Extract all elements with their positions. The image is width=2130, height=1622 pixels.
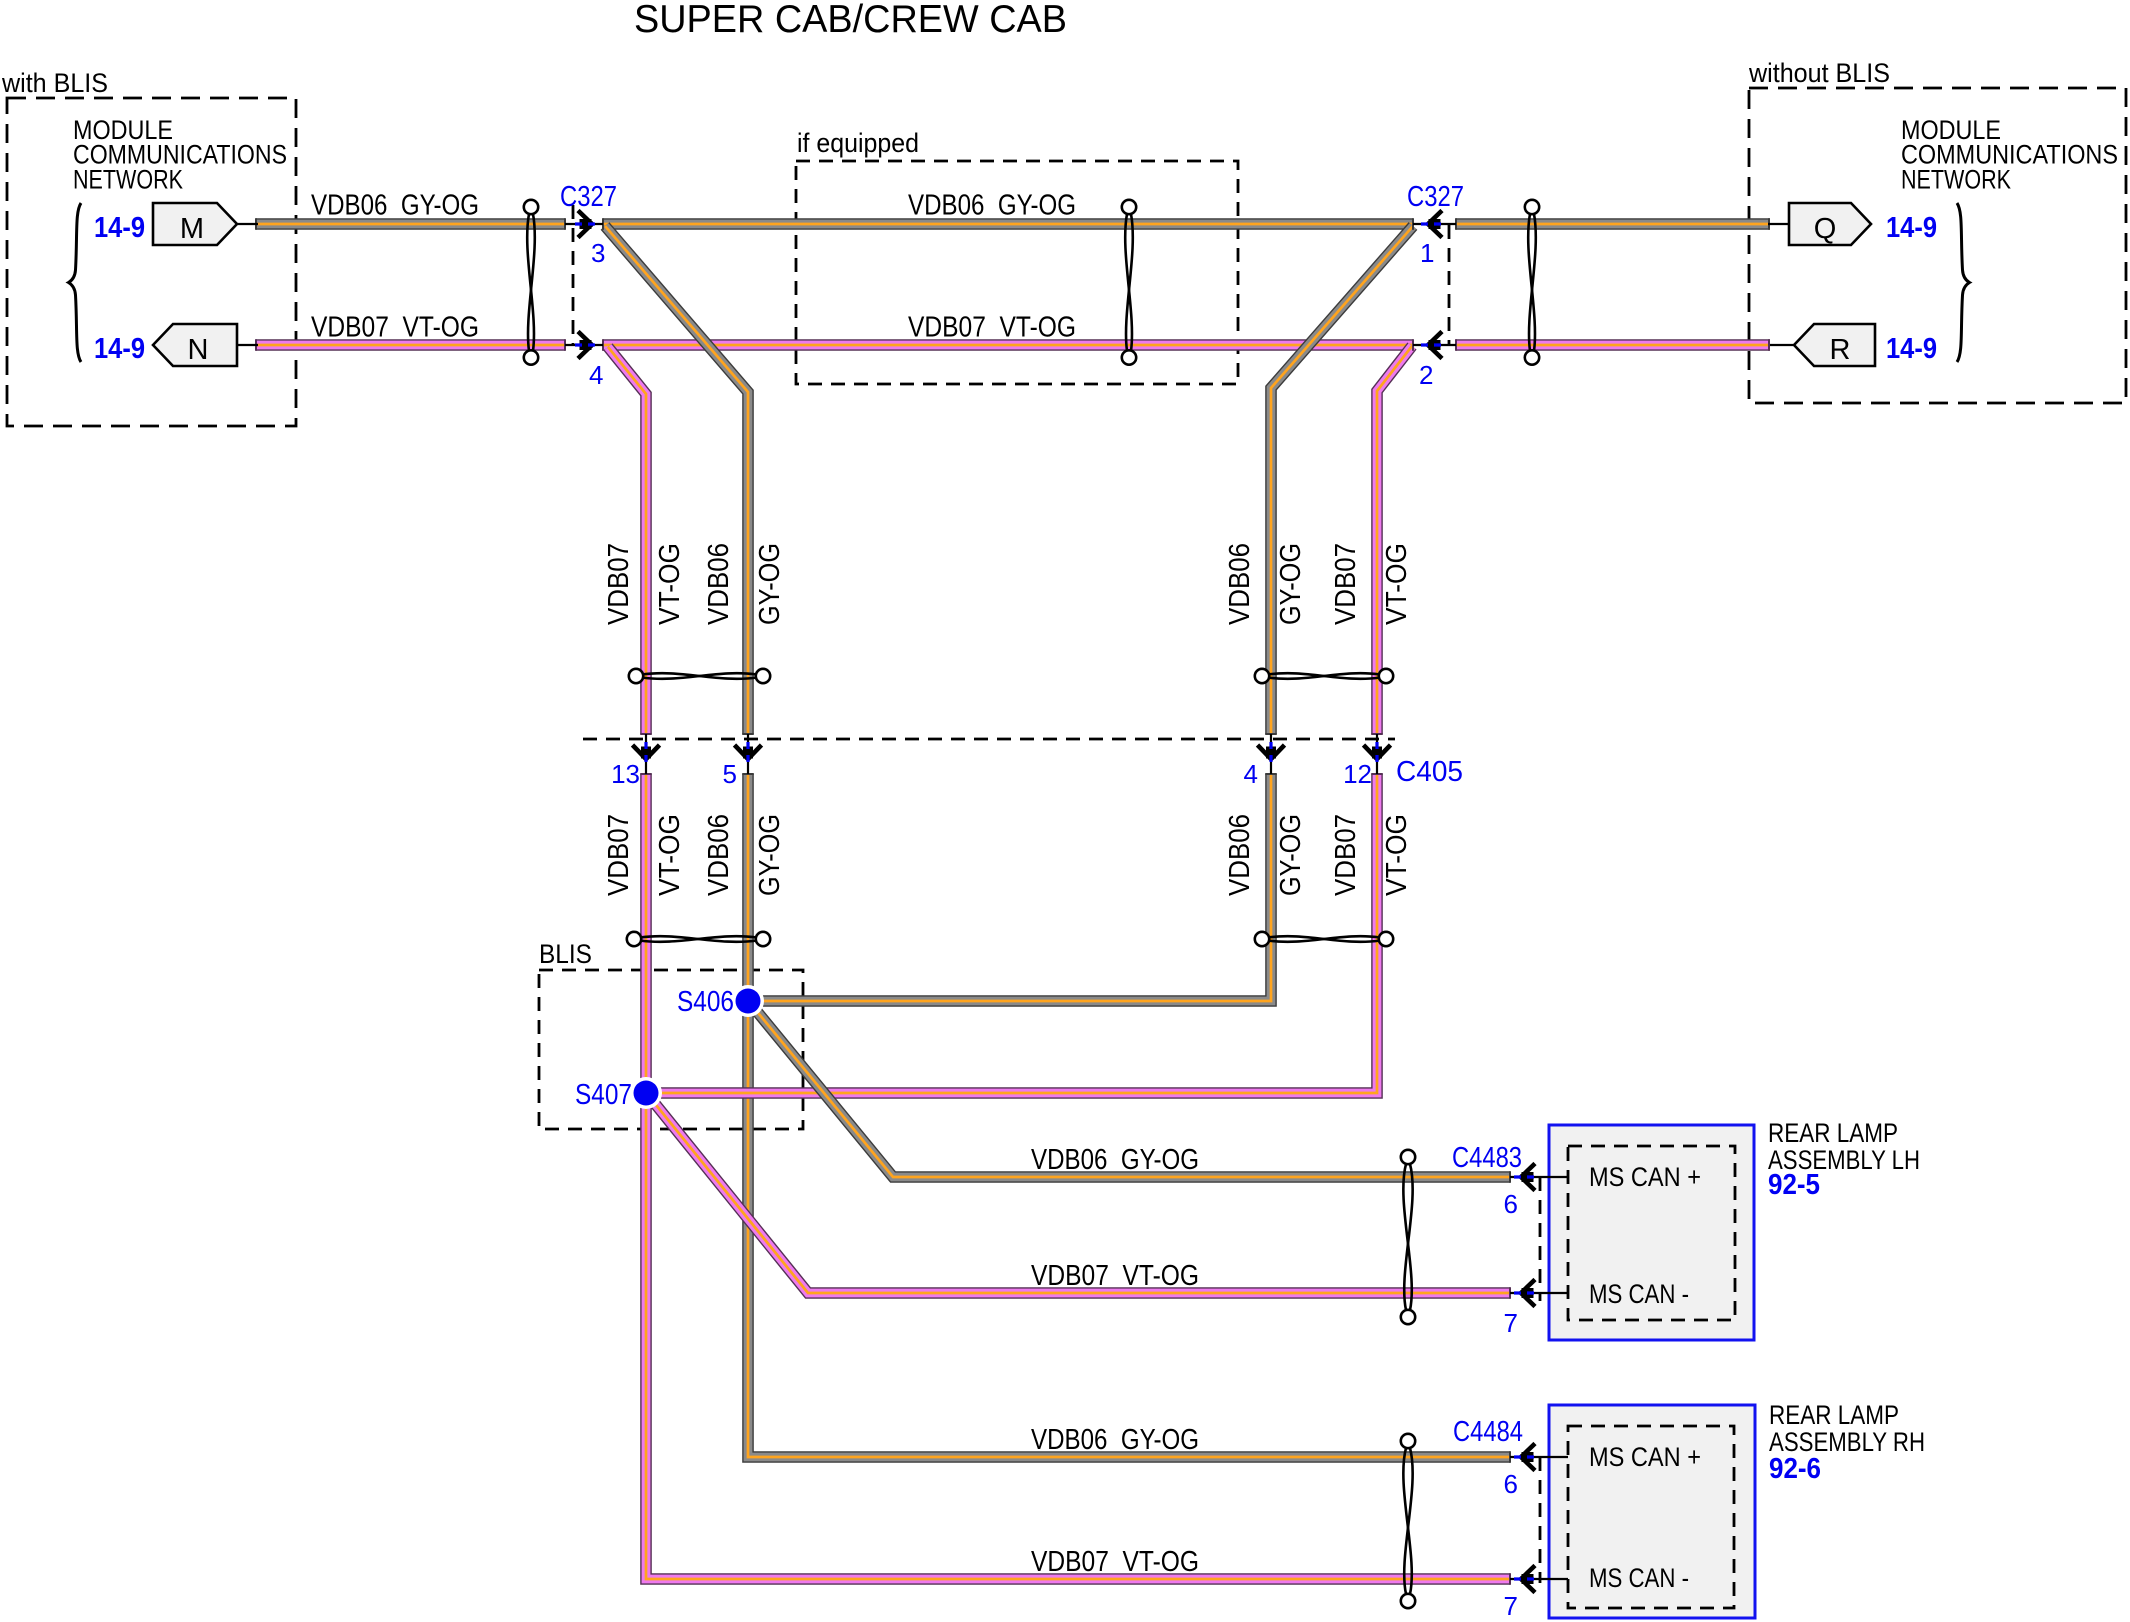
svg-text:GY-OG: GY-OG <box>754 814 786 896</box>
svg-text:C327: C327 <box>560 181 617 213</box>
svg-text:MS CAN +: MS CAN + <box>1589 1442 1701 1472</box>
twisted pair symbol left vertical pair lower <box>627 932 770 946</box>
rear lamp LH inner dashed box <box>1568 1146 1735 1320</box>
svg-text:VDB06 GY-OG: VDB06 GY-OG <box>908 190 1076 222</box>
wire stub C4483 pin 6 <box>1510 1176 1568 1178</box>
wire stub connector M <box>237 223 258 225</box>
wire VDB07 VT-OG splice S407 to C4483 pin 7 <box>648 1095 1510 1293</box>
svg-text:6: 6 <box>1504 1189 1518 1219</box>
twisted pair symbol C4484 wires <box>1401 1434 1415 1608</box>
connector Q symbol <box>1789 203 1871 245</box>
svg-text:VDB07 VT-OG: VDB07 VT-OG <box>908 312 1076 344</box>
svg-text:C4484: C4484 <box>1453 1416 1523 1448</box>
rear lamp RH inner dashed box <box>1568 1426 1734 1608</box>
wire stub C4484 pin 6 <box>1510 1456 1568 1458</box>
svg-text:S406: S406 <box>677 986 734 1018</box>
svg-text:MS CAN -: MS CAN - <box>1589 1563 1689 1593</box>
svg-text:R: R <box>1830 334 1851 366</box>
rotated wire labels upper <box>603 543 1413 625</box>
svg-text:1: 1 <box>1420 238 1434 268</box>
twisted pair symbol M/N wires <box>524 200 538 365</box>
wire VDB06 GY-OG C327 to C327 horizontal <box>603 223 1413 225</box>
connector C327 right dashed line <box>1448 225 1451 345</box>
label module network left <box>73 115 287 195</box>
svg-text:5: 5 <box>723 759 737 789</box>
svg-text:C405: C405 <box>1396 756 1463 788</box>
svg-text:VDB06 GY-OG: VDB06 GY-OG <box>311 190 479 222</box>
svg-text:7: 7 <box>1504 1591 1518 1621</box>
arrow C405 pin 5 <box>735 742 762 766</box>
wire stub C4484 pin 7 <box>1510 1578 1568 1580</box>
rear lamp assembly RH box <box>1549 1405 1755 1618</box>
svg-text:3: 3 <box>591 238 605 268</box>
wire gap line C327 pin 4 <box>565 344 603 346</box>
arrow C405 pin 4 <box>1258 742 1285 766</box>
twisted pair symbol Q/R wires <box>1525 200 1539 365</box>
connector N symbol <box>153 324 237 366</box>
splice S407 <box>630 1077 662 1109</box>
svg-text:Q: Q <box>1814 213 1837 245</box>
arrow C327 pin 3 <box>575 211 599 238</box>
svg-text:C4483: C4483 <box>1452 1142 1522 1174</box>
module box without BLIS <box>1749 88 2126 403</box>
connector C327 left dashed line <box>572 205 575 345</box>
svg-text:M: M <box>180 213 204 245</box>
svg-text:14-9: 14-9 <box>94 333 145 365</box>
svg-text:VDB06: VDB06 <box>703 814 735 896</box>
svg-text:VDB07: VDB07 <box>1330 543 1362 625</box>
wire gap line C405 pin 13 <box>645 734 647 774</box>
svg-text:NETWORK: NETWORK <box>1901 165 2011 195</box>
svg-text:14-9: 14-9 <box>1886 212 1937 244</box>
wire end caps <box>255 224 1770 1579</box>
svg-text:VDB07: VDB07 <box>603 814 635 896</box>
connector R symbol <box>1794 324 1875 366</box>
svg-text:92-6: 92-6 <box>1769 1453 1821 1485</box>
wire stub connector N <box>237 344 258 346</box>
wire gap line C405 pin 4 <box>1270 734 1272 774</box>
svg-text:VT-OG: VT-OG <box>654 814 686 896</box>
svg-text:2: 2 <box>1419 360 1433 390</box>
twisted pair symbol C4483 wires <box>1401 1150 1415 1324</box>
wire stub C4483 pin 7 <box>1510 1292 1568 1294</box>
wire VDB06 GY-OG splice S406 to C4483 pin 6 <box>750 1003 1510 1177</box>
arrow C327 pin 2 <box>1421 332 1445 359</box>
svg-text:REAR LAMP: REAR LAMP <box>1768 1118 1898 1148</box>
connector M symbol <box>153 203 237 245</box>
wire VDB06 GY-OG left vertical to C4484 pin 6 <box>748 774 1510 1457</box>
svg-text:14-9: 14-9 <box>94 212 145 244</box>
wire stub connector R <box>1770 344 1794 346</box>
rotated wire labels lower <box>603 814 1413 896</box>
twisted pair symbol right vertical pair upper <box>1255 669 1393 683</box>
svg-text:6: 6 <box>1504 1469 1518 1499</box>
arrow C327 pin 1 <box>1421 211 1445 238</box>
label module network right <box>1901 115 2118 195</box>
wire VDB06 GY-OG right vertical upper <box>1271 226 1413 734</box>
rear lamp assembly LH box <box>1549 1125 1754 1340</box>
svg-text:without BLIS: without BLIS <box>1748 58 1890 88</box>
svg-text:VDB07 VT-OG: VDB07 VT-OG <box>1031 1546 1199 1578</box>
svg-text:GY-OG: GY-OG <box>1275 543 1307 625</box>
svg-text:4: 4 <box>589 360 603 390</box>
wire VDB07 VT-OG from N to C327 <box>256 344 565 346</box>
svg-text:VDB06 GY-OG: VDB06 GY-OG <box>1031 1144 1199 1176</box>
svg-text:7: 7 <box>1504 1308 1518 1338</box>
wire gap line C327 pin 2 <box>1413 344 1456 346</box>
svg-text:VDB06: VDB06 <box>703 543 735 625</box>
wire VDB06 GY-OG from M to C327 <box>256 223 565 225</box>
arrow C327 pin 4 <box>575 332 599 359</box>
svg-text:N: N <box>188 334 209 366</box>
twisted pair symbol right vertical pair lower <box>1255 932 1393 946</box>
svg-text:VDB07: VDB07 <box>603 543 635 625</box>
label REAR LAMP ASSEMBLY RH <box>1769 1400 1925 1485</box>
wire VDB06 GY-OG C327 to Q <box>1456 223 1770 225</box>
wire VDB07 VT-OG right vertical upper <box>1377 346 1412 734</box>
BLIS box <box>539 970 803 1129</box>
arrow C4483 pin 7 <box>1514 1280 1538 1307</box>
wire stub connector Q <box>1768 223 1789 225</box>
module box with BLIS <box>7 98 296 426</box>
if equipped box <box>796 161 1238 384</box>
brace right <box>1957 203 1970 362</box>
svg-text:GY-OG: GY-OG <box>1275 814 1307 896</box>
wire gap line C405 pin 12 <box>1376 734 1378 774</box>
wire VDB07 VT-OG C327 to C327 horizontal <box>603 344 1413 346</box>
svg-text:VT-OG: VT-OG <box>654 543 686 625</box>
svg-text:VT-OG: VT-OG <box>1381 814 1413 896</box>
arrow C4484 pin 6 <box>1514 1444 1538 1471</box>
svg-text:BLIS: BLIS <box>539 939 592 969</box>
svg-text:NETWORK: NETWORK <box>73 165 183 195</box>
connector C4484 dashed line <box>1539 1457 1542 1583</box>
arrow C405 pin 13 <box>633 742 660 766</box>
wire gap line C327 pin 1 <box>1413 223 1456 225</box>
splice S406 <box>732 985 764 1017</box>
svg-text:4: 4 <box>1244 759 1258 789</box>
wire VDB07 VT-OG left vertical upper <box>608 347 646 734</box>
svg-text:92-5: 92-5 <box>1768 1169 1820 1201</box>
svg-text:C327: C327 <box>1407 181 1464 213</box>
svg-text:S407: S407 <box>575 1079 632 1111</box>
svg-text:with BLIS: with BLIS <box>1 68 108 98</box>
svg-text:13: 13 <box>611 759 640 789</box>
connector C4483 dashed line <box>1539 1177 1542 1301</box>
svg-text:VDB06: VDB06 <box>1224 814 1256 896</box>
svg-text:VDB06 GY-OG: VDB06 GY-OG <box>1031 1424 1199 1456</box>
wire VDB06 GY-OG splice S406 branch to C405 pin 4 <box>748 774 1271 1001</box>
svg-text:MS CAN +: MS CAN + <box>1589 1162 1701 1192</box>
wire gap line C327 pin 3 <box>565 223 603 225</box>
svg-text:MS CAN -: MS CAN - <box>1589 1279 1689 1309</box>
svg-text:VT-OG: VT-OG <box>1381 543 1413 625</box>
wire VDB07 VT-OG C327 to R <box>1456 344 1770 346</box>
svg-text:12: 12 <box>1343 759 1372 789</box>
svg-text:SUPER CAB/CREW CAB: SUPER CAB/CREW CAB <box>634 0 1067 41</box>
wire VDB06 GY-OG left vertical upper <box>605 226 748 734</box>
wire gap line C405 pin 5 <box>747 734 749 774</box>
svg-text:VDB06: VDB06 <box>1224 543 1256 625</box>
svg-text:14-9: 14-9 <box>1886 333 1937 365</box>
svg-text:VDB07: VDB07 <box>1330 814 1362 896</box>
svg-text:VDB07 VT-OG: VDB07 VT-OG <box>1031 1260 1199 1292</box>
connector C405 dashed line <box>583 738 1395 741</box>
svg-text:REAR LAMP: REAR LAMP <box>1769 1400 1899 1430</box>
svg-text:VDB07 VT-OG: VDB07 VT-OG <box>311 312 479 344</box>
arrow C4483 pin 6 <box>1514 1164 1538 1191</box>
svg-text:GY-OG: GY-OG <box>754 543 786 625</box>
twisted pair symbol if equipped wires <box>1122 200 1136 365</box>
svg-text:if equipped: if equipped <box>797 128 919 158</box>
twisted pair symbol left vertical pair upper <box>629 669 770 683</box>
label REAR LAMP ASSEMBLY LH <box>1768 1118 1920 1201</box>
arrow C405 pin 12 <box>1364 742 1391 766</box>
wire VDB07 VT-OG left vertical to C4484 pin 7 <box>646 774 1510 1579</box>
wire VDB07 VT-OG splice S407 branch to C405 pin 12 <box>646 774 1377 1093</box>
brace left <box>69 203 82 362</box>
arrow C4484 pin 7 <box>1514 1566 1538 1593</box>
